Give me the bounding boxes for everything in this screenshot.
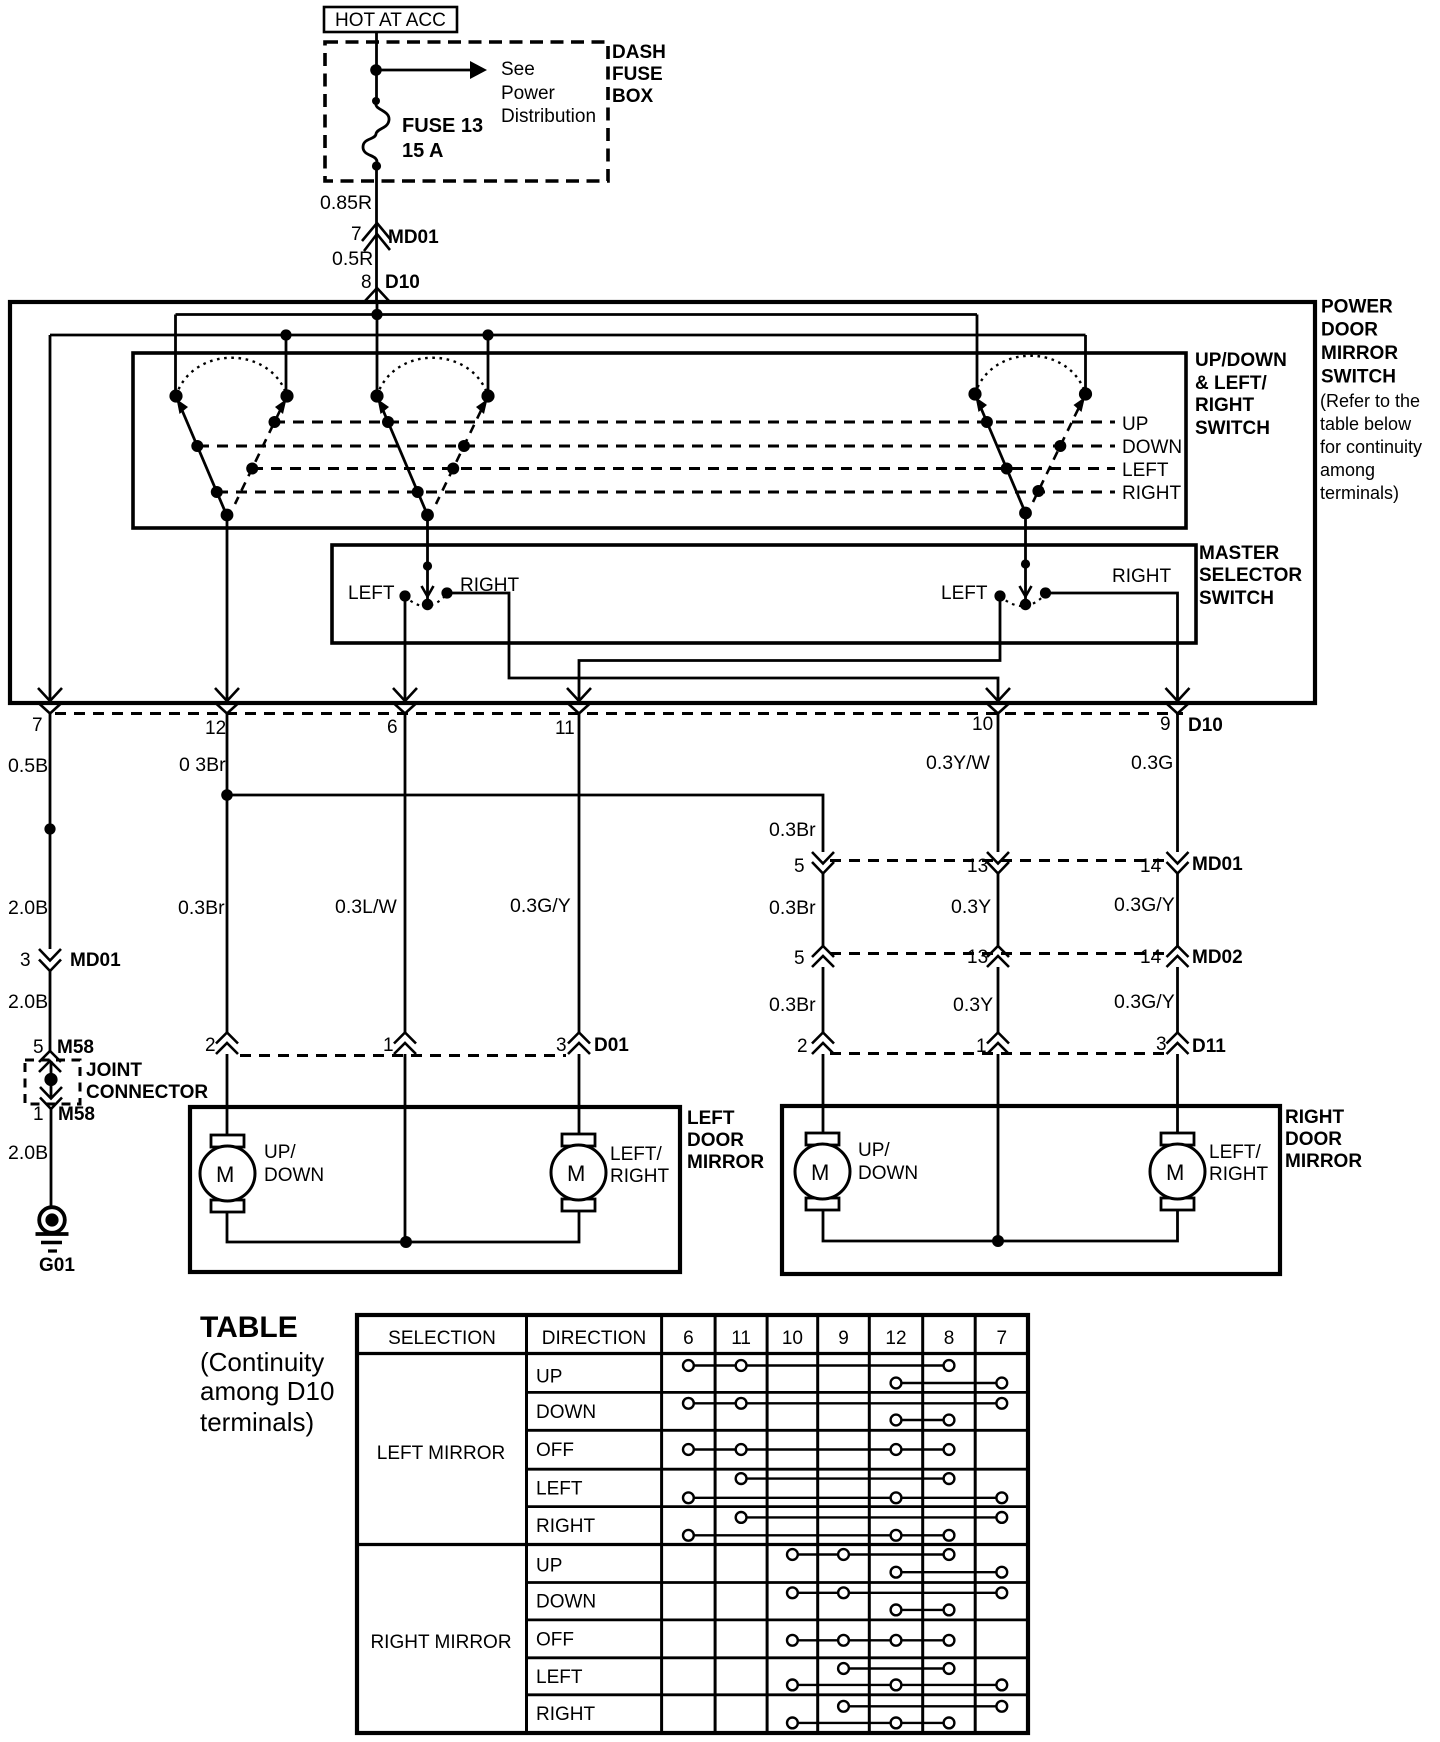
node junction 0.3Br branch <box>221 789 233 801</box>
node HOT AT ACC label box <box>324 7 457 32</box>
node junction rail2/V2 right <box>482 329 493 340</box>
wire 0.3G from D10-9 <box>1131 713 1178 852</box>
switch V3 (right) <box>968 356 1092 520</box>
wire return rail to pin 7 (lower rail) <box>50 335 1086 701</box>
wire left selector LEFT contact to D10 pin 6 <box>404 596 407 701</box>
svg-text:12: 12 <box>205 718 226 739</box>
svg-text:0.85R: 0.85R <box>320 192 372 214</box>
svg-text:11: 11 <box>731 1328 751 1349</box>
svg-text:8: 8 <box>944 1328 955 1349</box>
svg-text:13: 13 <box>967 947 988 968</box>
svg-text:6: 6 <box>387 717 398 738</box>
svg-text:DOWN: DOWN <box>858 1163 918 1184</box>
connector MD02 pin 5 <box>794 946 834 969</box>
svg-text:DOWN: DOWN <box>1122 437 1182 458</box>
connector D11 pin 2 <box>797 1033 834 1058</box>
wire left selector RIGHT contact to D10 pin 10 <box>447 593 998 701</box>
label FUSE 13 15 A <box>402 115 483 162</box>
svg-text:0.3G/Y: 0.3G/Y <box>510 895 571 917</box>
wire D11-2 to right up/down motor <box>822 1054 825 1138</box>
svg-text:2: 2 <box>205 1035 216 1056</box>
right door mirror box <box>782 1106 1280 1274</box>
joint connector (dashed box) <box>25 1060 80 1104</box>
continuity links row 5 RIGHT <box>683 1512 1007 1541</box>
svg-text:terminals): terminals) <box>200 1407 314 1437</box>
svg-text:among D10: among D10 <box>200 1376 334 1406</box>
continuity links row 3 OFF <box>683 1444 954 1455</box>
svg-text:RIGHT MIRROR: RIGHT MIRROR <box>370 1632 511 1653</box>
svg-text:UP: UP <box>1122 414 1148 435</box>
svg-text:D11: D11 <box>1192 1036 1226 1057</box>
svg-text:RIGHT: RIGHT <box>1122 483 1182 504</box>
connector D10 pin 7 arrow <box>32 688 62 736</box>
power door mirror switch box <box>10 302 1315 703</box>
net row UP (dashed) <box>274 421 1115 424</box>
connector MD02 row (dashed) <box>830 952 1170 955</box>
node junction in fuse box <box>370 64 382 76</box>
continuity links row 6 UP <box>787 1549 1007 1578</box>
svg-text:0.3Br: 0.3Br <box>769 994 816 1016</box>
svg-text:MIRROR: MIRROR <box>1321 343 1398 364</box>
connector MD01 pin 13 <box>967 852 1009 877</box>
connector D10 pin 6 arrow <box>387 688 417 738</box>
connector D01 pin 3 <box>556 1033 629 1057</box>
continuity links row 7 DOWN <box>787 1587 1007 1615</box>
net row RIGHT (dashed) <box>217 491 1115 494</box>
svg-text:among: among <box>1320 460 1375 480</box>
fuse F13 symbol <box>363 97 389 171</box>
connector D10 pin 8 <box>361 272 420 301</box>
svg-text:LEFT: LEFT <box>687 1108 735 1129</box>
svg-text:2: 2 <box>797 1036 808 1057</box>
labels UP DOWN LEFT RIGHT rows <box>1122 414 1182 504</box>
wire D01-2 to left up/down motor <box>226 1054 229 1140</box>
svg-text:0.3Br: 0.3Br <box>769 819 816 841</box>
svg-text:0.3G/Y: 0.3G/Y <box>1114 894 1175 916</box>
wire D01-3 to left l/r motor <box>578 1054 581 1140</box>
connector MD02 pin 14 <box>1140 946 1243 968</box>
switch master selector left <box>348 575 520 610</box>
svg-text:FUSE 13: FUSE 13 <box>402 115 483 137</box>
svg-text:table below: table below <box>1320 414 1412 434</box>
svg-text:0.3Br: 0.3Br <box>178 897 225 919</box>
svg-text:UP/: UP/ <box>264 1142 296 1163</box>
svg-text:9: 9 <box>1160 714 1171 735</box>
label See Power Distribution <box>501 59 596 127</box>
svg-text:3: 3 <box>20 950 31 971</box>
svg-text:SWITCH: SWITCH <box>1195 418 1270 439</box>
svg-text:LEFT: LEFT <box>348 583 395 604</box>
svg-text:DIRECTION: DIRECTION <box>542 1328 647 1349</box>
connector D01 pin 1 <box>383 1033 416 1057</box>
svg-text:5: 5 <box>33 1037 44 1058</box>
node junction right mirror common <box>992 1235 1004 1247</box>
svg-text:DOWN: DOWN <box>536 1402 596 1423</box>
connector D10 pin 12 arrow <box>205 688 239 739</box>
wire 0.3Br branch to right door column <box>227 795 823 852</box>
svg-text:MASTER: MASTER <box>1199 543 1280 564</box>
svg-text:OFF: OFF <box>536 1629 574 1650</box>
svg-text:MD01: MD01 <box>388 227 439 248</box>
svg-text:RIGHT: RIGHT <box>536 1516 596 1537</box>
svg-text:2.0B: 2.0B <box>8 1142 48 1164</box>
svg-text:9: 9 <box>838 1328 849 1349</box>
wire from HOT AT ACC into fuse box <box>375 32 378 101</box>
svg-text:& LEFT/: & LEFT/ <box>1195 373 1267 394</box>
svg-text:UP/DOWN: UP/DOWN <box>1195 350 1287 371</box>
continuity links row 10 RIGHT <box>787 1701 1007 1728</box>
switch V1 up/down pole (left) <box>169 358 293 522</box>
svg-text:0.3Br: 0.3Br <box>769 897 816 919</box>
svg-text:MIRROR: MIRROR <box>1285 1151 1362 1172</box>
up/down & left/right switch inner box <box>133 353 1186 528</box>
motor left mirror left/right <box>551 1134 670 1211</box>
wire 0.3G/Y from D10-11 <box>510 713 579 1033</box>
svg-text:15 A: 15 A <box>402 140 444 162</box>
label TABLE (Continuity among D10 terminals) <box>200 1311 334 1437</box>
svg-text:MD01: MD01 <box>1192 854 1243 875</box>
svg-text:Distribution: Distribution <box>501 106 596 127</box>
svg-text:D01: D01 <box>594 1035 629 1056</box>
svg-text:M: M <box>567 1161 585 1186</box>
svg-text:FUSE: FUSE <box>612 64 663 85</box>
svg-text:7: 7 <box>997 1328 1008 1349</box>
node junction rail2/V1 right <box>280 329 291 340</box>
svg-text:HOT AT ACC: HOT AT ACC <box>335 10 446 31</box>
svg-text:DOWN: DOWN <box>536 1592 596 1613</box>
connector D10 pin 10 arrow <box>972 688 1010 735</box>
switch master selector right <box>941 566 1172 610</box>
connector MD01 row right (dashed) <box>830 859 1170 862</box>
svg-text:0.3Y/W: 0.3Y/W <box>926 752 991 774</box>
svg-text:RIGHT: RIGHT <box>536 1704 596 1725</box>
continuity table grid <box>357 1315 1028 1733</box>
svg-text:DOOR: DOOR <box>687 1130 744 1151</box>
wire 0.3Br from D10-12 with branch <box>178 713 227 1033</box>
wire arrow to See Power Distribution <box>376 61 487 79</box>
wire right mirror common rail <box>823 1210 1178 1241</box>
connector MD01 pin 3 <box>20 949 121 971</box>
connector D01 row (dashed) <box>240 1054 566 1057</box>
svg-text:MD02: MD02 <box>1192 947 1243 968</box>
node junction left mirror common <box>400 1236 412 1248</box>
connector D10 pin 11 arrow <box>555 688 591 739</box>
svg-text:CONNECTOR: CONNECTOR <box>86 1082 208 1103</box>
svg-text:D10: D10 <box>385 272 420 293</box>
continuity links row 4 LEFT <box>683 1473 1007 1503</box>
node junction on ground leg <box>44 823 55 834</box>
switch V2 (center) <box>370 358 494 522</box>
svg-text:14: 14 <box>1140 947 1162 968</box>
svg-text:LEFT: LEFT <box>536 1667 583 1688</box>
node dot above left selector <box>423 561 432 570</box>
svg-text:TABLE: TABLE <box>200 1311 298 1344</box>
svg-text:0.3G/Y: 0.3G/Y <box>1114 991 1175 1013</box>
svg-text:UP/: UP/ <box>858 1140 890 1161</box>
svg-text:terminals): terminals) <box>1320 483 1399 503</box>
svg-text:DOOR: DOOR <box>1285 1129 1342 1150</box>
svg-text:LEFT: LEFT <box>1122 460 1169 481</box>
svg-text:3: 3 <box>556 1035 567 1056</box>
svg-text:for continuity: for continuity <box>1320 437 1422 457</box>
svg-text:D10: D10 <box>1188 715 1223 736</box>
continuity links row 8 OFF <box>787 1635 954 1646</box>
svg-text:SELECTOR: SELECTOR <box>1199 565 1302 586</box>
wires between MD01 and MD02 <box>769 873 1178 946</box>
continuity links row 1 UP <box>683 1360 1007 1388</box>
svg-text:0.3Y: 0.3Y <box>953 994 993 1016</box>
motor right mirror left/right <box>1150 1133 1269 1210</box>
svg-text:MD01: MD01 <box>70 950 121 971</box>
motor right mirror up/down <box>795 1133 918 1210</box>
svg-text:(Refer to the: (Refer to the <box>1320 391 1420 411</box>
svg-text:M58: M58 <box>58 1104 95 1125</box>
node junction rail1/V2 feed <box>371 309 382 320</box>
wire V2 bottom into left master selector <box>426 515 429 600</box>
wire 0.3L/W from D10-6 <box>335 713 405 1033</box>
svg-text:M: M <box>216 1162 234 1187</box>
wire fuse to connector MD01 pin 7 <box>375 166 378 302</box>
connector D10 bottom row (dashed) <box>55 712 1183 715</box>
connector MD01 pin 14 <box>1140 852 1243 877</box>
connector D11 pin 3 <box>1156 1033 1226 1058</box>
svg-text:SELECTION: SELECTION <box>388 1328 496 1349</box>
svg-text:(Continuity: (Continuity <box>200 1347 324 1377</box>
svg-text:1: 1 <box>383 1035 394 1056</box>
dash fuse box (dashed outline) <box>325 42 608 181</box>
svg-text:UP: UP <box>536 1367 562 1388</box>
svg-text:RIGHT: RIGHT <box>1285 1107 1345 1128</box>
label MASTER SELECTOR SWITCH <box>1199 543 1302 609</box>
svg-text:JOINT: JOINT <box>86 1060 142 1081</box>
label JOINT CONNECTOR <box>86 1060 208 1103</box>
wire D11-1 to right motor common <box>997 1054 1000 1241</box>
svg-text:SWITCH: SWITCH <box>1321 367 1396 388</box>
svg-text:12: 12 <box>885 1328 906 1349</box>
wire D01-1 to motor common <box>404 1054 407 1242</box>
right selector lever arrow <box>1020 586 1032 597</box>
svg-text:LEFT MIRROR: LEFT MIRROR <box>377 1443 505 1464</box>
svg-text:SWITCH: SWITCH <box>1199 588 1274 609</box>
wire 2.0B to ground <box>8 1109 51 1208</box>
wire supply rail from D10-8 (upper rail) <box>176 302 978 396</box>
svg-text:10: 10 <box>972 714 993 735</box>
svg-text:0.5B: 0.5B <box>8 755 48 777</box>
svg-text:5: 5 <box>794 948 805 969</box>
master selector switch box <box>332 545 1196 643</box>
svg-text:See: See <box>501 59 535 80</box>
label POWER DOOR MIRROR SWITCH <box>1320 297 1422 504</box>
svg-text:LEFT: LEFT <box>941 583 988 604</box>
svg-text:0.3G: 0.3G <box>1131 752 1173 774</box>
net row DOWN (dashed) <box>198 445 1115 448</box>
connector D11 pin 1 <box>976 1033 1009 1058</box>
left door mirror box <box>190 1107 680 1272</box>
motor left mirror up/down <box>200 1135 324 1212</box>
svg-text:RIGHT: RIGHT <box>1112 566 1172 587</box>
svg-text:6: 6 <box>683 1328 694 1349</box>
label UP/DOWN & LEFT/RIGHT SWITCH <box>1195 350 1287 439</box>
svg-text:7: 7 <box>351 224 362 245</box>
svg-text:DOWN: DOWN <box>264 1165 324 1186</box>
connector D11 row (dashed) <box>830 1052 1170 1055</box>
connector MD02 pin 13 <box>967 946 1009 968</box>
svg-text:0.3L/W: 0.3L/W <box>335 896 397 918</box>
wire left mirror common rail <box>227 1212 579 1242</box>
label LEFT DOOR MIRROR <box>687 1108 764 1173</box>
connector MD01 pin 5 <box>794 852 834 877</box>
svg-text:0 3Br: 0 3Br <box>179 754 226 776</box>
node dot above right selector <box>1021 559 1030 568</box>
svg-text:14: 14 <box>1140 856 1162 877</box>
svg-text:RIGHT: RIGHT <box>1195 395 1255 416</box>
svg-text:DASH: DASH <box>612 42 666 63</box>
svg-text:Power: Power <box>501 83 556 104</box>
svg-text:G01: G01 <box>39 1255 75 1276</box>
svg-text:3: 3 <box>1156 1034 1167 1055</box>
wire D11-3 to right l/r motor <box>1176 1054 1179 1138</box>
wire 2.0B to M58 <box>8 971 50 1051</box>
svg-text:8: 8 <box>361 272 372 293</box>
ground G01 <box>36 1207 76 1276</box>
svg-text:5: 5 <box>794 856 805 877</box>
svg-text:2.0B: 2.0B <box>8 897 48 919</box>
connector MD01 pin 7 (chevrons) <box>351 223 439 251</box>
svg-text:0.5R: 0.5R <box>332 248 373 270</box>
svg-text:1: 1 <box>33 1104 44 1125</box>
left selector lever arrow <box>422 586 434 597</box>
svg-text:13: 13 <box>967 856 988 877</box>
wire 0.3Y/W from D10-10 <box>926 713 998 852</box>
svg-text:LEFT/: LEFT/ <box>610 1144 662 1165</box>
svg-text:2.0B: 2.0B <box>8 991 48 1013</box>
connector M58 pin 1 <box>33 1087 95 1125</box>
svg-text:1: 1 <box>976 1036 987 1057</box>
svg-text:11: 11 <box>555 718 575 739</box>
svg-text:BOX: BOX <box>612 86 654 107</box>
svg-text:LEFT: LEFT <box>536 1478 583 1499</box>
wire V1 bottom to D10 pin 12 <box>226 515 229 701</box>
svg-text:DOOR: DOOR <box>1321 320 1378 341</box>
svg-text:M58: M58 <box>57 1037 94 1058</box>
table header labels <box>388 1328 1007 1349</box>
svg-text:0.3Y: 0.3Y <box>951 896 991 918</box>
continuity links row 9 LEFT <box>787 1663 1007 1690</box>
svg-text:M: M <box>1166 1160 1184 1185</box>
svg-text:10: 10 <box>782 1328 803 1349</box>
wire V3 bottom into right master selector <box>1024 513 1027 600</box>
connector M58 pin 5 <box>33 1037 94 1072</box>
wires between MD02 and D11 <box>769 967 1178 1033</box>
wire 0.5B / 2.0B ground leg <box>8 713 50 949</box>
svg-text:UP: UP <box>536 1556 562 1577</box>
svg-text:RIGHT: RIGHT <box>1209 1164 1269 1185</box>
wire right selector RIGHT contact to D10 pin 9 <box>1046 593 1178 701</box>
connector D10 pin 9 arrow <box>1160 688 1190 735</box>
label RIGHT DOOR MIRROR <box>1285 1107 1362 1172</box>
svg-text:7: 7 <box>32 715 43 736</box>
svg-text:LEFT/: LEFT/ <box>1209 1142 1261 1163</box>
wire right selector LEFT contact to D10 pin 11 <box>579 596 1000 701</box>
svg-text:M: M <box>811 1160 829 1185</box>
svg-text:MIRROR: MIRROR <box>687 1152 764 1173</box>
svg-text:POWER: POWER <box>1321 297 1393 318</box>
continuity links row 2 DOWN <box>683 1398 1007 1426</box>
label DASH FUSE BOX <box>612 42 666 107</box>
connector D01 pin 2 <box>205 1033 238 1057</box>
net row LEFT (dashed) <box>252 467 1115 470</box>
svg-text:RIGHT: RIGHT <box>610 1166 670 1187</box>
svg-text:OFF: OFF <box>536 1440 574 1461</box>
